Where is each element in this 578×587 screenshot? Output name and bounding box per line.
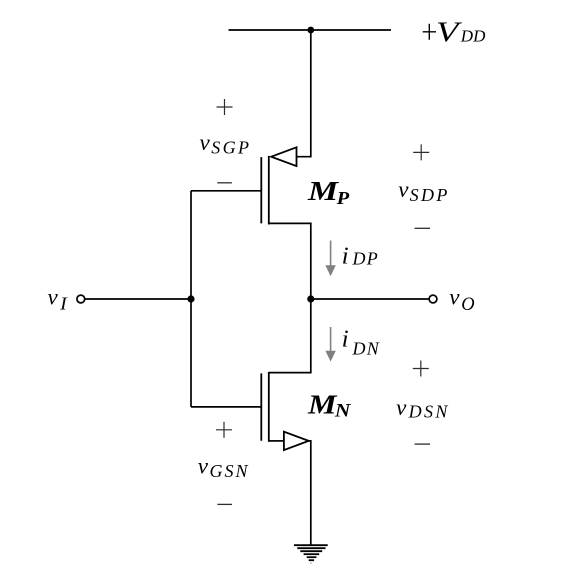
svg-text:GSN: GSN: [210, 461, 250, 481]
label vO: [449, 285, 474, 316]
svg-text:v: v: [396, 395, 407, 420]
label MP: [307, 175, 351, 208]
label plus vGSN: [216, 422, 232, 438]
label vDSN: [396, 395, 450, 422]
label iDN: [342, 326, 380, 359]
svg-text:DSN: DSN: [408, 401, 450, 421]
wire output node to MN drain: [269, 299, 311, 373]
svg-text:i: i: [342, 242, 349, 269]
transistor MN channel bar: [268, 372, 270, 442]
svg-text:O: O: [461, 295, 474, 315]
transistor MN gate bar: [260, 373, 262, 440]
terminal vO: [429, 295, 437, 303]
label vSDP: [398, 177, 450, 205]
svg-text:DP: DP: [352, 249, 379, 269]
wire MN source to ground: [309, 441, 311, 545]
label iDP: [342, 242, 379, 269]
wire MP drain to output node: [269, 223, 311, 299]
svg-text:v: v: [398, 177, 409, 202]
label +VDD: [423, 16, 486, 48]
wire VDD to PMOS source: [297, 30, 311, 157]
svg-text:v: v: [449, 285, 460, 310]
current arrow iDN: [325, 327, 335, 362]
svg-text:DD: DD: [460, 27, 486, 46]
transistor MP source arrow: [271, 147, 296, 166]
VDD rail: [229, 29, 392, 31]
transistor MP gate bar: [260, 157, 262, 223]
label vGSN: [198, 454, 250, 481]
ground: [294, 545, 328, 563]
svg-text:v: v: [48, 285, 59, 310]
svg-text:SDP: SDP: [410, 185, 450, 205]
label plus vSDP: [413, 144, 429, 160]
label plus vSGP: [217, 99, 233, 115]
node output junction dot: [307, 295, 314, 302]
svg-text:SGP: SGP: [211, 138, 251, 158]
label minus vSDP: [415, 227, 430, 229]
svg-text:DN: DN: [352, 338, 380, 358]
wire MP gate lead: [191, 190, 261, 192]
svg-text:M: M: [307, 175, 340, 206]
node input junction dot: [187, 295, 194, 302]
current arrow iDP: [325, 241, 335, 277]
svg-text:V: V: [436, 16, 463, 48]
svg-text:N: N: [334, 402, 351, 422]
wire MN source lead: [269, 440, 284, 442]
svg-text:v: v: [198, 454, 209, 479]
wire input: [85, 298, 191, 300]
svg-text:i: i: [342, 326, 349, 353]
transistor MN source arrow: [284, 432, 309, 450]
node VDD junction dot: [307, 27, 314, 34]
label plus vDSN: [413, 361, 429, 377]
svg-text:P: P: [336, 188, 351, 208]
label minus vSGP: [217, 182, 232, 184]
svg-text:I: I: [59, 294, 68, 314]
label minus vGSN: [217, 503, 232, 505]
wire MN gate lead: [191, 406, 261, 408]
label vSGP: [200, 130, 252, 158]
transistor MP channel bar: [268, 156, 270, 225]
label minus vDSN: [415, 443, 430, 445]
terminal vI: [77, 295, 85, 303]
label MN: [307, 389, 351, 422]
svg-text:v: v: [200, 130, 211, 155]
wire output: [311, 298, 429, 300]
label vI: [48, 285, 68, 314]
wire left gate bus: [190, 191, 192, 407]
svg-text:M: M: [307, 389, 338, 420]
